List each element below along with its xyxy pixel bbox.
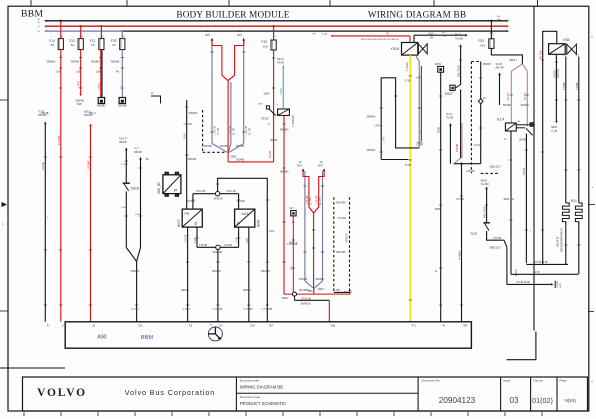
svg-text:SB04B3: SB04B3 — [71, 61, 80, 64]
lamp symbol — [208, 327, 222, 341]
svg-text:4B.PO: 4B.PO — [516, 269, 518, 276]
wire K14 arrow stub — [498, 73, 501, 76]
svg-text:SB04B3: SB04B3 — [38, 114, 47, 117]
svg-text:1:7908: 1:7908 — [121, 164, 128, 166]
svg-text:SB04B3: SB04B3 — [367, 149, 376, 152]
svg-text:SB04B7: SB04B7 — [521, 105, 530, 107]
svg-text:DG4: DG4 — [442, 35, 447, 37]
wire aux pair line — [420, 66, 422, 141]
wire F53 down and over — [491, 48, 522, 63]
svg-text:TRAIL: TRAIL — [282, 297, 289, 300]
svg-text:P: P — [174, 188, 177, 193]
wire F12 down red-black pair — [100, 50, 102, 98]
junction red bus F32 — [272, 25, 274, 27]
svg-text:SB04B5: SB04B5 — [212, 270, 221, 273]
valve Y36 pilot symbol — [567, 44, 577, 54]
connector B67B — [438, 66, 444, 72]
svg-text:Volvo Bus Corporation: Volvo Bus Corporation — [125, 388, 215, 397]
wire B67B down — [440, 72, 442, 322]
svg-text:BBM: BBM — [141, 335, 153, 341]
wire A28 red hook — [228, 41, 244, 81]
title block — [23, 377, 588, 411]
wire n-shape loop — [381, 78, 419, 160]
svg-text:K12: K12 — [262, 116, 270, 121]
svg-text:1:PO4B: 1:PO4B — [456, 198, 465, 201]
svg-text:N54: N54 — [250, 325, 255, 328]
svg-text:A90: A90 — [98, 334, 107, 340]
wire K14 coil feed — [510, 71, 512, 123]
wire S70 feed — [485, 187, 488, 190]
svg-text:Document type: Document type — [240, 395, 261, 399]
svg-text:SB04B5: SB04B5 — [299, 279, 308, 281]
svg-text:10A: 10A — [480, 43, 485, 47]
svg-text:4B: 4B — [146, 158, 149, 161]
svg-text:WHT: WHT — [318, 166, 324, 168]
svg-text:B06_PO(2): B06_PO(2) — [483, 206, 486, 218]
svg-text:B+ 30A: B+ 30A — [538, 50, 542, 59]
svg-text:SB04B5: SB04B5 — [236, 160, 245, 162]
svg-text:19:B: 19:B — [246, 238, 249, 243]
svg-text:A28: A28 — [237, 30, 242, 33]
svg-text:31L4B: 31L4B — [269, 150, 272, 158]
svg-text:1:PO4.0B: 1:PO4.0B — [287, 243, 298, 246]
pump B06_B9 — [163, 175, 181, 194]
wire V2 to red rail — [313, 289, 315, 295]
wire resistor a down — [565, 222, 567, 264]
svg-text:SB04: SB04 — [551, 126, 558, 129]
wire F53 to bus — [490, 21, 492, 39]
wire Y924 aux out arrow right — [413, 35, 415, 42]
svg-text:20904123: 20904123 — [439, 396, 476, 405]
svg-text:1.7x1.1: 1.7x1.1 — [183, 308, 192, 311]
svg-text:31L: 31L — [290, 265, 293, 270]
svg-text:EL.PR: EL.PR — [233, 128, 236, 135]
wire splice down lamp — [217, 250, 219, 322]
relay K14 contact — [516, 124, 530, 126]
svg-text:4:PO4B: 4:PO4B — [457, 143, 459, 152]
svg-text:BODY BUILDER MODULE SOLENOID: BODY BUILDER MODULE SOLENOID — [361, 39, 400, 41]
wire S927 black down — [460, 90, 462, 159]
dashed corner piece — [202, 110, 204, 152]
svg-text:SB08: SB08 — [435, 208, 442, 211]
svg-text:A11: A11 — [62, 325, 67, 328]
svg-text:1.7T4B0: 1.7T4B0 — [244, 308, 254, 311]
svg-text:HEATER: HEATER — [346, 233, 349, 243]
svg-text:SB4.4B5: SB4.4B5 — [336, 251, 346, 254]
svg-text:B4B: B4B — [77, 103, 82, 106]
svg-text:SB04B03: SB04B03 — [301, 303, 312, 306]
section divider line — [533, 6, 535, 330]
svg-text:F10: F10 — [69, 39, 75, 43]
splice SP0809 — [215, 192, 219, 196]
svg-text:Volume: Volume — [533, 379, 543, 383]
svg-text:SB04B3: SB04B3 — [131, 270, 140, 273]
svg-text:70.7B: 70.7B — [551, 130, 558, 133]
wire splice right — [220, 193, 239, 195]
wire split Y — [511, 64, 522, 72]
svg-text:1:PO4B: 1:PO4B — [185, 234, 188, 243]
svg-text:WHT: WHT — [297, 166, 303, 168]
svg-text:SB04B3: SB04B3 — [84, 114, 93, 117]
svg-text:0:PO.4B: 0:PO.4B — [196, 190, 205, 193]
svg-text:B7B: B7B — [259, 104, 264, 106]
svg-text:SB04B5: SB04B5 — [111, 61, 120, 64]
svg-text:5A: 5A — [71, 43, 75, 47]
svg-text:76.7: 76.7 — [134, 148, 139, 151]
svg-text:SB04B3: SB04B3 — [47, 61, 56, 64]
wire B079 top feed — [186, 100, 188, 209]
svg-text:31B: 31B — [76, 71, 81, 74]
svg-text:4.7M: 4.7M — [535, 272, 540, 274]
svg-text:F53: F53 — [479, 39, 485, 43]
sheet zone marks left — [0, 99, 8, 101]
wire B079 pin right — [196, 227, 198, 247]
svg-text:57L4B: 57L4B — [524, 93, 527, 100]
svg-text:SB04B7: SB04B7 — [503, 105, 512, 107]
valve Y36 — [549, 44, 566, 55]
svg-text:DEA: DEA — [429, 33, 434, 36]
wire F32 to bus — [273, 26, 275, 40]
wire down to pin 44P — [461, 164, 463, 322]
svg-text:S4.7: S4.7 — [290, 208, 295, 210]
svg-text:SB1.4: SB1.4 — [84, 111, 91, 114]
svg-text:1.7x1.1: 1.7x1.1 — [131, 308, 140, 311]
svg-text:15A: 15A — [263, 45, 268, 49]
svg-text:SB04B5: SB04B5 — [280, 129, 289, 132]
svg-text:SB04B3: SB04B3 — [367, 116, 376, 119]
svg-text:70L4.17: 70L4.17 — [119, 138, 128, 141]
wire F29 to bus — [121, 31, 123, 38]
svg-text:1:PO4B: 1:PO4B — [338, 217, 347, 220]
red distribution rail — [284, 293, 350, 295]
svg-text:SB1.B: SB1.B — [277, 58, 284, 61]
svg-text:SB08: SB08 — [438, 126, 441, 133]
wire resistor b down — [578, 222, 580, 274]
svg-text:5B08_B27: 5B08_B27 — [490, 165, 502, 168]
svg-text:14:B: 14:B — [135, 214, 140, 216]
svg-text:SB04B3: SB04B3 — [188, 112, 197, 115]
heater rail 2 — [511, 273, 578, 275]
svg-text:PRODUCT SCHEMATIC: PRODUCT SCHEMATIC — [240, 401, 286, 406]
wire F10 down red arrow end — [80, 50, 82, 94]
sheet zone marks right — [588, 204, 595, 206]
fuse F12 — [99, 39, 104, 50]
svg-text:57.9B: 57.9B — [405, 164, 412, 167]
wire V middle grey — [230, 82, 232, 144]
dashed boundary right — [470, 62, 472, 174]
svg-text:P: P — [195, 221, 198, 226]
svg-text:SB04: SB04 — [264, 93, 271, 96]
wire A28 arrow — [242, 38, 245, 41]
svg-text:1:PO4B: 1:PO4B — [86, 161, 90, 170]
svg-text:C.B: C.B — [562, 55, 566, 57]
svg-text:5B04.7: 5B04.7 — [510, 59, 518, 62]
svg-text:1:PO4: 1:PO4 — [78, 81, 81, 88]
wire to S928 black — [125, 148, 128, 151]
wire A26 grey down — [211, 41, 213, 144]
svg-text:1:PO4B: 1:PO4B — [57, 136, 61, 145]
svg-text:01(02): 01(02) — [532, 396, 553, 405]
svg-text:37K4B: 37K4B — [523, 167, 526, 175]
wire Y924 grey branch — [416, 55, 420, 148]
relay B079 — [182, 209, 202, 227]
wire V2 right grey — [322, 171, 324, 281]
svg-text:7DL4B: 7DL4B — [446, 118, 453, 120]
svg-text:SB04B1: SB04B1 — [97, 105, 106, 108]
svg-text:3.7K4B: 3.7K4B — [577, 82, 579, 90]
svg-text:70L4B3: 70L4B3 — [455, 37, 464, 40]
wire S70 down — [487, 231, 507, 247]
wire V2 right arrow — [323, 169, 326, 172]
svg-text:SB08.1: SB08.1 — [243, 289, 252, 292]
svg-text:5B04B: 5B04B — [270, 139, 278, 142]
svg-text:F12: F12 — [90, 39, 96, 43]
wire B079 pin left down — [187, 227, 189, 322]
heater rail 1 — [526, 263, 568, 265]
wire K12 cyan feed — [282, 65, 285, 68]
svg-text:SP08.09: SP08.09 — [214, 197, 224, 200]
wire K12 red down — [283, 115, 285, 294]
svg-text:SB04B3: SB04B3 — [91, 61, 100, 64]
svg-text:SB04B7: SB04B7 — [483, 63, 492, 66]
wire A13 down — [136, 262, 138, 322]
wire Y924 red feed with arrow — [334, 35, 411, 37]
svg-text:0:PO4B: 0:PO4B — [199, 245, 208, 247]
junction black bus F53 — [490, 20, 492, 22]
ECU A90 BBM box — [65, 322, 471, 348]
wire B+ feed — [543, 31, 557, 264]
svg-text:PO4B: PO4B — [557, 281, 559, 287]
svg-text:WIRING DIAGRAM BB: WIRING DIAGRAM BB — [368, 9, 466, 19]
wire F14 to bus — [60, 21, 62, 39]
svg-text:54B: 54B — [331, 325, 336, 328]
switch S927 — [450, 85, 455, 90]
svg-text:1:PO4B: 1:PO4B — [493, 237, 502, 240]
bus 31 grey-black rail — [47, 30, 122, 32]
svg-text:Y924: Y924 — [390, 46, 400, 51]
svg-text:1:PO: 1:PO — [383, 136, 386, 142]
svg-text:1.7T0.B0: 1.7T0.B0 — [213, 308, 223, 311]
svg-text:SB05: SB05 — [231, 157, 237, 159]
wire ground A7 black — [44, 122, 47, 125]
junction grey bus F29 — [121, 30, 123, 32]
svg-text:31B: 31B — [56, 71, 61, 74]
svg-text:Page: Page — [560, 379, 567, 383]
red rail end pin — [349, 290, 351, 295]
sheet zone ticks top — [30, 0, 32, 7]
relay K14 coil — [505, 123, 516, 131]
connector below F12 — [98, 98, 104, 104]
svg-text:EL.PPL: EL.PPL — [319, 196, 322, 205]
resistor R10b — [575, 203, 582, 224]
svg-text:SB04B: SB04B — [134, 151, 142, 154]
wire V2 left grey — [304, 171, 306, 281]
fuse F10 — [78, 39, 83, 50]
svg-text:ABO.4B: ABO.4B — [496, 67, 505, 70]
fuse F14 — [58, 39, 63, 50]
wire B080 pin left — [238, 227, 240, 247]
svg-text:SB04B5: SB04B5 — [204, 146, 213, 148]
svg-text:3:PO: 3:PO — [269, 231, 274, 233]
svg-text:L:DA.4B: L:DA.4B — [306, 195, 309, 205]
svg-text:44.4B(4): 44.4B(4) — [459, 251, 462, 260]
svg-text:S928: S928 — [131, 187, 139, 191]
wire S927 feed — [459, 44, 462, 47]
svg-text:SB04B5: SB04B5 — [261, 270, 270, 273]
wire 54B red drop — [328, 300, 330, 322]
pin tick marks on wires — [59, 57, 62, 59]
splice bar under relays — [197, 246, 239, 248]
wire K14 down to heater rail — [525, 134, 527, 264]
wire Y924 yellow down — [409, 55, 411, 322]
svg-text:03: 03 — [510, 396, 519, 405]
svg-text:SB.08B03: SB.08B03 — [299, 290, 310, 292]
svg-text:WHT: WHT — [205, 34, 211, 37]
wire A28 grey down — [243, 41, 245, 144]
wire merge to A13 — [126, 248, 136, 262]
svg-text:S70: S70 — [471, 232, 477, 236]
svg-text:44.: 44. — [420, 129, 423, 133]
svg-text:3.7K4B: 3.7K4B — [564, 82, 566, 90]
fuse F29 — [120, 39, 125, 50]
svg-text:A.77: A.77 — [442, 31, 447, 34]
svg-text:FR: FR — [185, 212, 190, 216]
svg-text:SB04B: SB04B — [119, 141, 127, 144]
svg-text:B:DA: B:DA — [183, 133, 186, 139]
wire F32 down red — [273, 50, 275, 162]
wire F29 down grey — [121, 50, 123, 98]
wire heater trunk — [506, 247, 508, 284]
svg-text:BTB: BTB — [560, 283, 562, 288]
wire K14 contact feed — [526, 71, 528, 126]
svg-text:3:PO4B: 3:PO4B — [466, 170, 475, 173]
svg-text:5.7K4B: 5.7K4B — [474, 145, 482, 147]
fold mark line — [0, 367, 65, 369]
svg-text:A26: A26 — [205, 30, 210, 33]
svg-text:WATERSEPARAT: WATERSEPARAT — [560, 228, 564, 252]
connector S47 — [291, 211, 296, 216]
svg-text:1:790: 1:790 — [121, 207, 127, 209]
wire arch over relays — [218, 178, 268, 321]
svg-text:Y36: Y36 — [563, 37, 571, 42]
svg-text:5.4B(2): 5.4B(2) — [553, 70, 556, 78]
svg-text:1.7T04B5: 1.7T04B5 — [262, 308, 273, 311]
svg-text:Issue: Issue — [503, 379, 511, 383]
wire A13 right branch black — [139, 157, 142, 160]
svg-text:44P: 44P — [463, 325, 468, 328]
svg-text:7B: 7B — [386, 33, 389, 35]
svg-text:1939B: 1939B — [280, 88, 283, 95]
wire F10 to bus — [80, 26, 82, 38]
relay K12 coil — [278, 109, 290, 115]
svg-text:1:PO4: 1:PO4 — [98, 83, 101, 90]
svg-text:S927: S927 — [445, 92, 453, 96]
wire A9 red — [89, 124, 92, 127]
svg-text:5:PM: 5:PM — [416, 77, 421, 79]
wire A26 red hook — [212, 41, 228, 81]
svg-text:57L4B 44.9B: 57L4B 44.9B — [517, 282, 531, 284]
wire red horizontal to K12 leg — [228, 161, 274, 163]
svg-text:B67B: B67B — [435, 63, 441, 66]
svg-text:9(53): 9(53) — [565, 398, 576, 403]
svg-text:4:DA: 4:DA — [322, 32, 327, 35]
wire V2 red trunk — [313, 213, 315, 289]
wire splice left — [193, 193, 216, 195]
relay K12 contact — [266, 106, 269, 109]
svg-text:1:7908: 1:7908 — [416, 145, 424, 147]
wire B080 pin right down — [248, 227, 250, 322]
svg-text:BBM: BBM — [21, 10, 43, 20]
svg-text:P: P — [237, 221, 240, 226]
svg-text:EL.PR: EL.PR — [217, 128, 220, 135]
svg-text:5A: 5A — [91, 43, 95, 47]
wire V2 left arrow — [302, 169, 305, 172]
svg-text:1:PO4B: 1:PO4B — [374, 124, 383, 127]
wire horizontal collect — [454, 163, 481, 165]
svg-text:Document No: Document No — [422, 379, 441, 383]
wire S47 red down — [292, 216, 294, 294]
svg-text:SB4.4B5: SB4.4B5 — [336, 202, 346, 205]
junction red bus F10 — [80, 25, 82, 27]
stub hook near F29 — [151, 96, 161, 104]
svg-text:SB04B5: SB04B5 — [220, 146, 229, 148]
svg-text:76.7B: 76.7B — [38, 111, 45, 114]
svg-text:EL.PPL: EL.PPL — [310, 196, 313, 205]
svg-text:70L4B3: 70L4B3 — [481, 183, 490, 186]
wire V red trunk — [227, 81, 229, 162]
wire arrow feed mid — [449, 123, 452, 126]
svg-text:WIRING DIAGRAM BB: WIRING DIAGRAM BB — [240, 384, 283, 389]
svg-text:N5F: N5F — [269, 325, 274, 328]
svg-text:44.9B: 44.9B — [417, 141, 424, 144]
junction red bus F12 — [100, 25, 102, 27]
junction black bus F14 — [60, 20, 62, 22]
relay B080 — [235, 209, 255, 227]
svg-text:F14: F14 — [49, 39, 55, 43]
svg-text:B04(PO): B04(PO) — [557, 68, 560, 78]
wire V grey merge diagonals — [212, 144, 228, 153]
svg-text:SB08_B27: SB08_B27 — [504, 199, 516, 201]
wire BTB arrow — [507, 283, 551, 285]
dashed boundary box heater-fuel — [333, 197, 335, 292]
wire A26 arrow — [211, 38, 214, 41]
svg-text:5B1.B: 5B1.B — [455, 34, 462, 37]
splice circle trailer — [293, 292, 297, 296]
connector below F29 — [119, 98, 125, 104]
svg-text:BODY BUILDER MODULE: BODY BUILDER MODULE — [176, 9, 289, 19]
svg-text:L:DA.4B: L:DA.4B — [245, 125, 248, 135]
wire V2 grey merge — [305, 281, 314, 289]
svg-text:15A: 15A — [430, 37, 435, 40]
svg-text:B079: B079 — [177, 219, 181, 227]
svg-text:SB04B3: SB04B3 — [188, 158, 197, 161]
wire below S928 — [125, 192, 127, 248]
svg-text:1:PO4B: 1:PO4B — [183, 123, 192, 126]
svg-text:1:PO4B(2): 1:PO4B(2) — [292, 115, 295, 127]
svg-text:471: 471 — [412, 325, 417, 328]
svg-text:L:DA.4B: L:DA.4B — [213, 125, 216, 135]
svg-text:B06_PO(2): B06_PO(2) — [457, 65, 460, 77]
svg-text:SB04B5: SB04B5 — [316, 279, 325, 281]
svg-text:0:PO.4B: 0:PO.4B — [227, 190, 236, 193]
sheet zone ticks bottom — [23, 412, 25, 416]
switch S928 — [123, 182, 130, 184]
wire V2 left red hook — [303, 171, 314, 213]
wire heater right — [578, 57, 580, 204]
svg-text:4B: 4B — [116, 71, 119, 74]
svg-text:C.B: C.B — [575, 55, 579, 57]
svg-text:VOLVO: VOLVO — [37, 387, 87, 399]
